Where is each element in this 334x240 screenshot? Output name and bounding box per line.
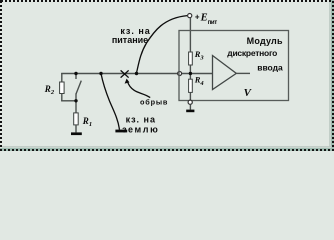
inner shadow line right (329, 2, 330, 147)
comparator output wire (236, 72, 250, 74)
svg-text:дискретного: дискретного (227, 48, 277, 58)
node: short-to-ground tap (99, 72, 102, 75)
svg-text:кз. на: кз. на (126, 115, 156, 125)
wire: R3-R4 middle (junction) (189, 65, 191, 79)
svg-text:землю: землю (122, 125, 159, 135)
ground bar under R1 (71, 132, 82, 135)
resistor R4 (189, 79, 193, 92)
ground bar for short-to-ground (115, 130, 127, 133)
svg-text:Модуль: Модуль (247, 36, 283, 46)
wire: stub to ground (189, 104, 191, 109)
resistor R1 (74, 113, 79, 125)
ground bar under module (186, 110, 194, 113)
svg-text:ввода: ввода (257, 62, 283, 72)
arrowhead of break pointer (125, 79, 130, 84)
svg-text:пит: пит (208, 20, 218, 26)
node: bottom junction at switch/R1 (74, 99, 77, 102)
fault curve: short to power (to +E terminal) (137, 16, 188, 73)
wire: main net from terminal to comparator (182, 73, 213, 75)
fault curve: short to ground (101, 74, 119, 130)
inner shadow line bottom (2, 146, 332, 147)
resistor R3 (189, 52, 193, 65)
wire: bottom link R2 to switch (61, 100, 76, 102)
svg-text:E: E (200, 13, 208, 24)
switch contact: bottom stub (75, 94, 77, 101)
node: short-to-power tap (135, 72, 138, 75)
terminal circle: module input on box edge (178, 72, 182, 76)
teal strip bottom edge (0, 148, 334, 151)
wire: R1 bottom lead (75, 125, 77, 132)
wire: R2 top lead (corner) (61, 73, 63, 82)
X break mark on wire (121, 70, 129, 77)
wire: R1 top lead (75, 101, 77, 113)
wire: R4 bottom lead to box edge (189, 92, 191, 100)
svg-text:обрыв: обрыв (140, 98, 168, 107)
+E power terminal circle (188, 14, 192, 18)
resistor R2 (60, 82, 65, 94)
wire: R2 bottom lead (61, 94, 63, 101)
terminal circle: module common on bottom edge (188, 100, 192, 104)
teal strip right edge (331, 0, 334, 151)
wire: +E down into module (189, 18, 191, 52)
switch contact: top stub (75, 74, 77, 80)
node: R3/R4 divider junction (189, 72, 192, 75)
switch contact: blade (76, 81, 81, 94)
wire: main horizontal net left of terminal (61, 73, 178, 75)
break pointer arrow (обрыв) (127, 81, 150, 97)
node: switch-to-wire junction (74, 72, 77, 75)
dashed frame border (1, 1, 333, 150)
svg-text:+: + (195, 12, 200, 21)
svg-text:питание: питание (112, 35, 148, 45)
comparator U1 (213, 56, 237, 90)
module box (179, 31, 289, 101)
